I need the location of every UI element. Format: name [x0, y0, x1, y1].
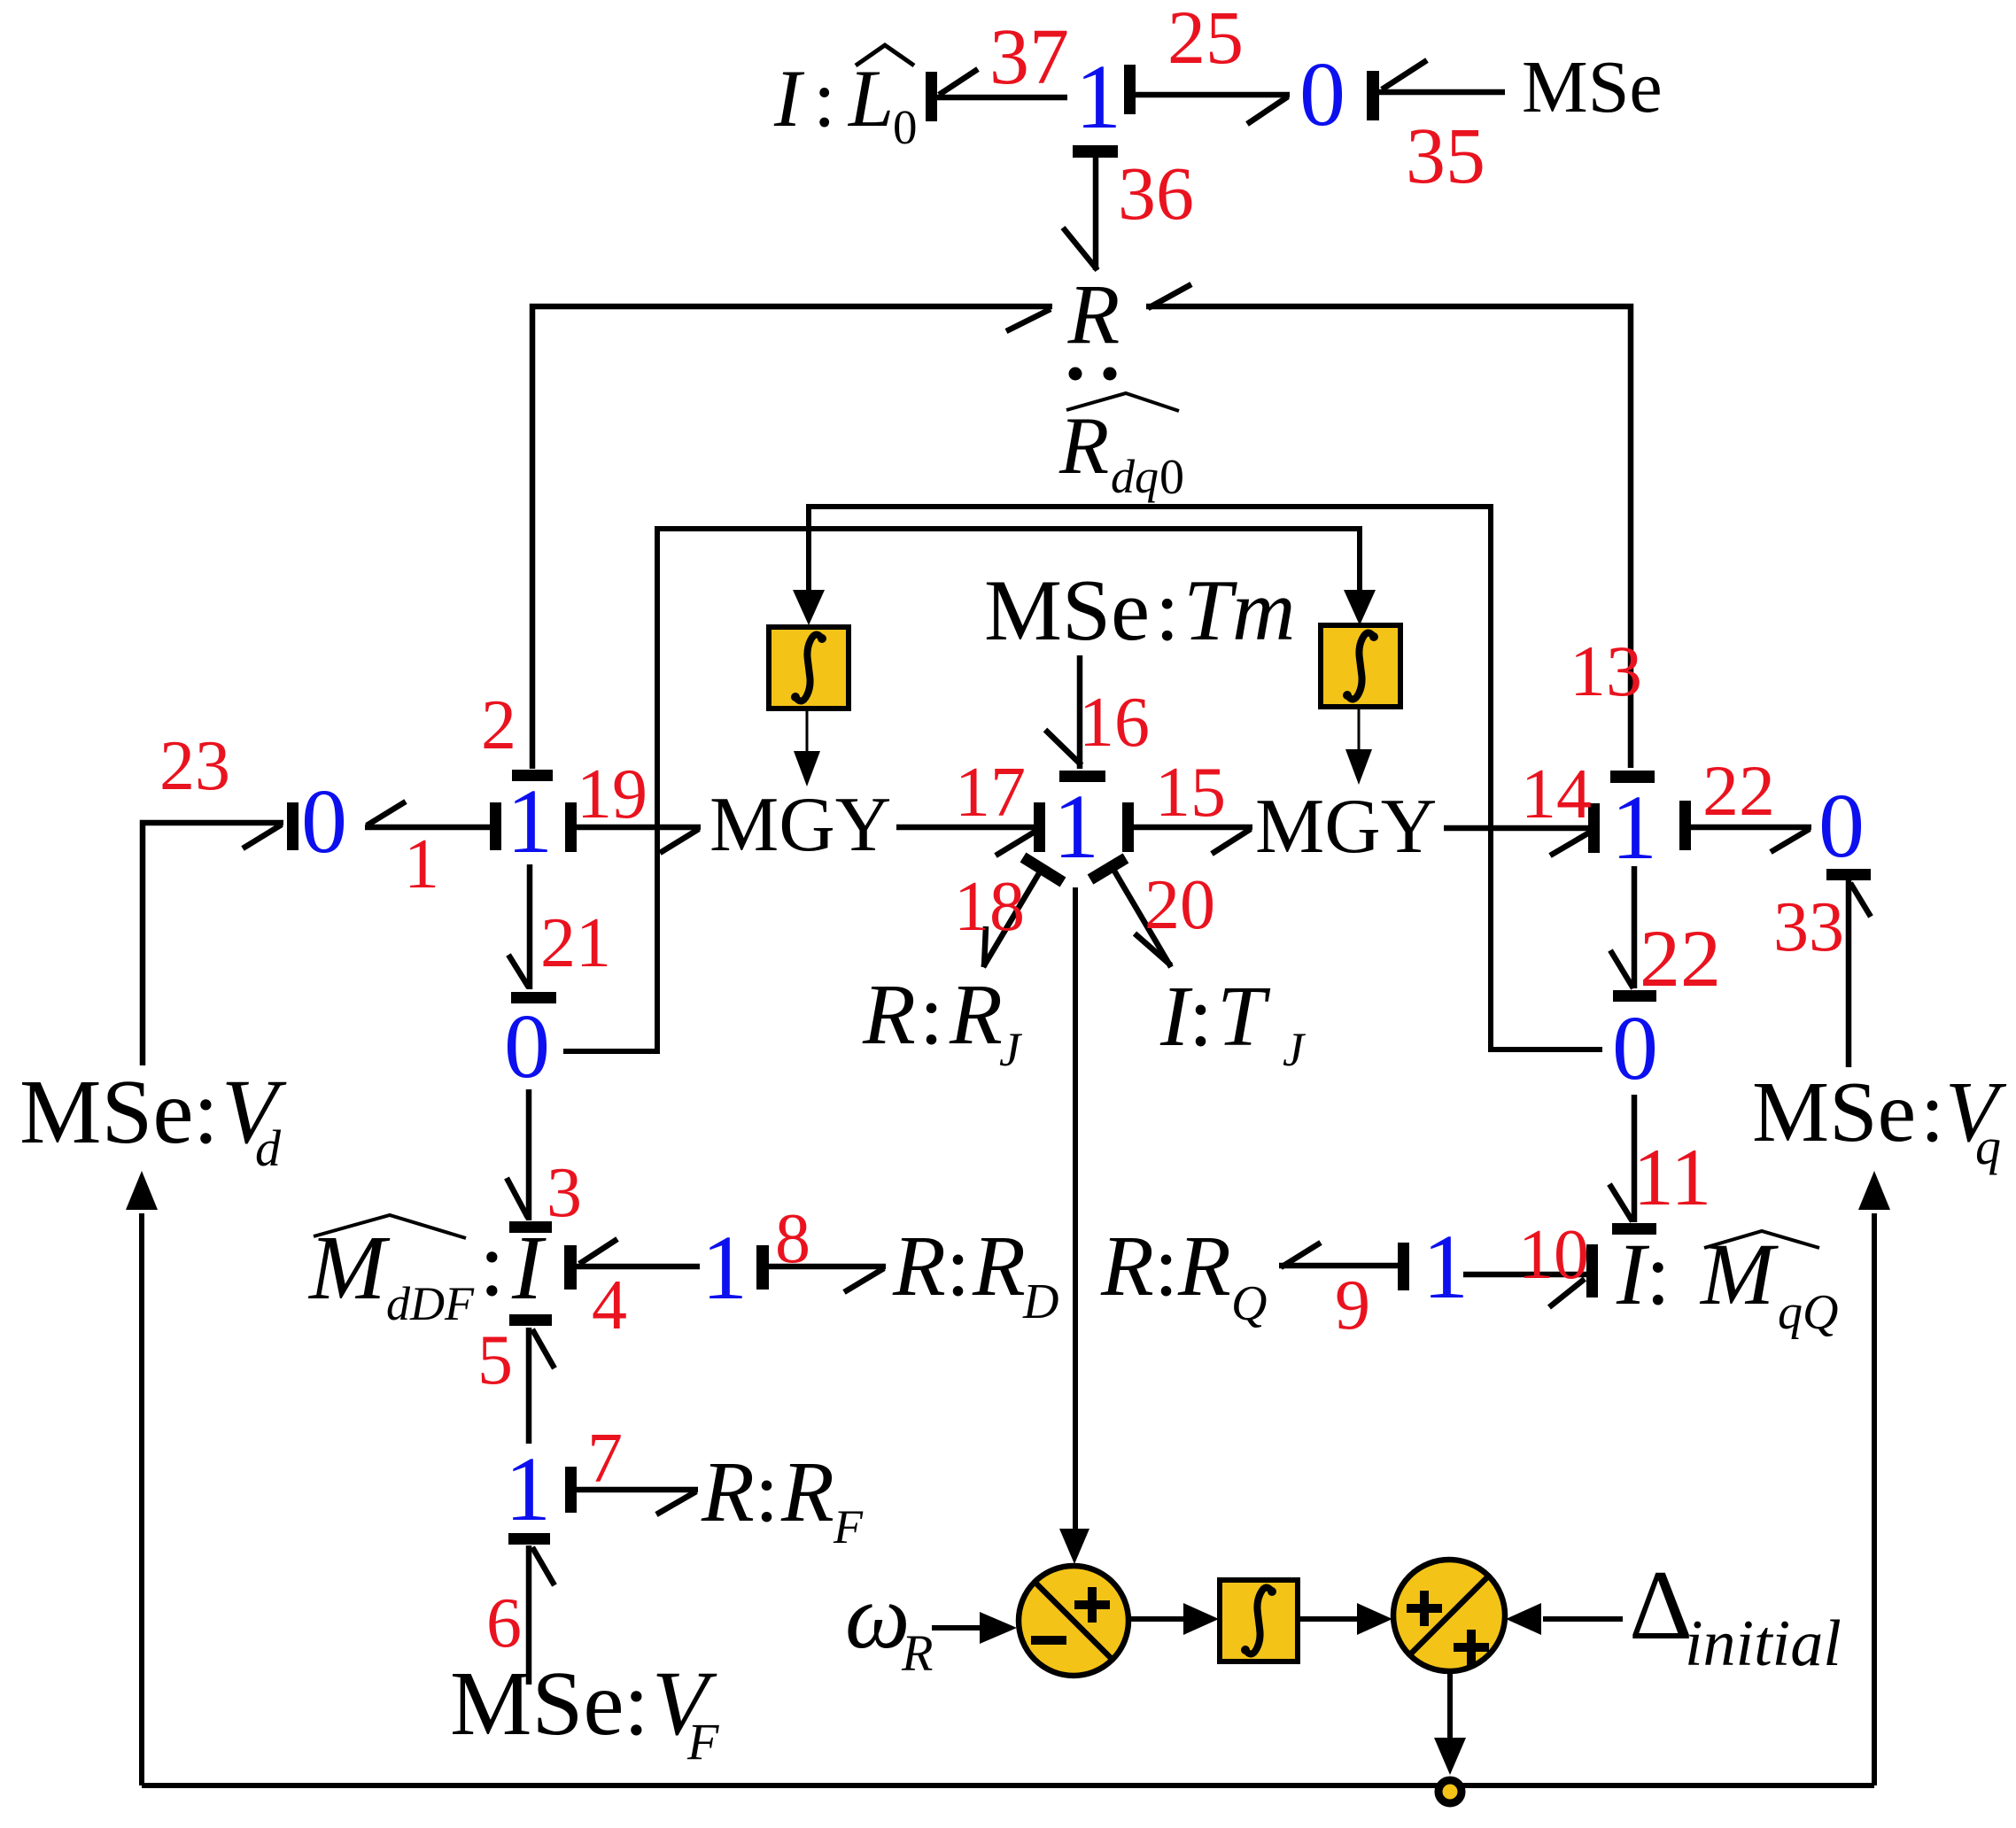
svg-text:20: 20: [1144, 866, 1215, 944]
left integrator output arrow to MGY: [806, 709, 809, 753]
svg-text:18: 18: [954, 868, 1025, 946]
inertia I:TJ: [1159, 969, 1307, 1076]
svg-text::: :: [1154, 1219, 1178, 1314]
svg-text:1: 1: [1611, 777, 1657, 879]
bond 10 (mid-right 1 to I:MqQ): [1463, 1272, 1586, 1278]
element I:L0 label: [773, 53, 918, 154]
bond 5 (lower 1 up to I:MdDF): [509, 1314, 552, 1326]
bond 23 (MSe:Vd up and to left 0): [143, 823, 283, 1065]
svg-text:q: q: [1975, 1118, 2001, 1175]
svg-text:R: R: [1058, 400, 1109, 491]
bond 33 (MSe:Vq up to far right 0): [1826, 869, 1871, 880]
svg-text:7: 7: [587, 1420, 623, 1498]
svg-text:R: R: [701, 1445, 755, 1540]
svg-text:1: 1: [1075, 46, 1121, 148]
source MSe:Vq: [1752, 1065, 2007, 1175]
bond 22 (right 1 to far right 0): [1679, 801, 1691, 850]
hat over L0: [856, 45, 914, 66]
svg-text:13: 13: [1570, 631, 1642, 711]
svg-text::: :: [1920, 1065, 1944, 1160]
svg-text:d: d: [255, 1119, 282, 1177]
svg-text:15: 15: [1155, 754, 1226, 832]
svg-text::: :: [1189, 969, 1213, 1065]
svg-text::: :: [919, 967, 943, 1063]
bond 6 (MSe:VF up to lower 1): [508, 1533, 550, 1545]
resistor R:RD: [892, 1219, 1058, 1329]
svg-text::: :: [624, 1653, 649, 1754]
svg-text:R: R: [780, 1445, 834, 1540]
svg-text:0: 0: [1159, 450, 1184, 505]
bond 20 (center 1 to I:TJ): [1109, 862, 1171, 967]
svg-text:R: R: [949, 967, 1003, 1063]
bond 4 (mid-left 1 to I:MdDF): [564, 1245, 577, 1290]
svg-text:dq: dq: [1111, 450, 1159, 503]
svg-text:T: T: [1217, 969, 1271, 1065]
svg-text:6: 6: [486, 1584, 522, 1662]
svg-text:Q: Q: [1231, 1276, 1267, 1331]
bond 7 (lower 1 to R:RF): [565, 1467, 577, 1513]
svg-text:1: 1: [1423, 1216, 1469, 1318]
svg-text:R: R: [862, 967, 916, 1063]
Delta initial label: [1629, 1551, 1842, 1680]
source MSe:Vd: [19, 1061, 287, 1177]
svg-text:qQ: qQ: [1778, 1285, 1838, 1340]
svg-text:10: 10: [1518, 1216, 1589, 1294]
resistor R:RF: [701, 1445, 864, 1553]
svg-text:MSe: MSe: [1522, 46, 1663, 128]
svg-text:dDF: dDF: [386, 1277, 475, 1330]
svg-text:22: 22: [1702, 750, 1775, 831]
svg-text::: :: [946, 1219, 970, 1314]
svg-text:M: M: [307, 1217, 391, 1319]
wire center 1 down to summer 1: [1073, 887, 1078, 1530]
svg-text:19: 19: [577, 755, 647, 833]
bond 25 (top 1 to top 0): [1124, 65, 1136, 114]
resistor node R (R_dq0): [1058, 267, 1184, 505]
svg-text:MGY: MGY: [1255, 784, 1437, 870]
svg-text:37: 37: [989, 13, 1069, 101]
svg-text:35: 35: [1406, 112, 1485, 200]
integrator box (right): [1321, 625, 1400, 707]
svg-text:F: F: [833, 1500, 864, 1553]
svg-text:0: 0: [1818, 775, 1865, 877]
svg-text:R: R: [1177, 1219, 1231, 1314]
omega_R label: [845, 1566, 933, 1682]
arrow integrator to summer 2: [1298, 1616, 1360, 1622]
bond 1 (left 1 to left 0): [365, 825, 490, 831]
svg-text:16: 16: [1079, 684, 1150, 762]
svg-text:initial: initial: [1685, 1607, 1842, 1680]
feedback wire to MSe:Vd (left): [139, 1213, 144, 1785]
svg-text::: :: [1646, 1225, 1671, 1323]
svg-text:J: J: [999, 1023, 1023, 1076]
svg-text:33: 33: [1773, 888, 1844, 966]
bond 16 (MSe:Tm down to center 1): [1077, 655, 1083, 769]
svg-text:1: 1: [1053, 776, 1099, 878]
svg-text:21: 21: [540, 904, 611, 982]
bond 8 (mid-left 1 to R:RD): [756, 1245, 769, 1290]
svg-text:MSe: MSe: [1752, 1065, 1916, 1160]
bond 22 (right 1 down to lower right 0): [1632, 866, 1638, 988]
svg-text::: :: [755, 1445, 779, 1540]
svg-text:14: 14: [1521, 755, 1592, 833]
svg-text:J: J: [1283, 1023, 1307, 1076]
svg-text:R: R: [1100, 1219, 1154, 1314]
svg-text:3: 3: [547, 1154, 582, 1232]
svg-text:F: F: [686, 1713, 719, 1770]
hat over MdDF: [314, 1215, 466, 1238]
svg-text:ω: ω: [845, 1566, 910, 1668]
wire B (left 0-junction up over to right integrator): [563, 529, 1360, 1051]
summer circle 1: [1019, 1566, 1128, 1676]
arrow summer1 to integrator: [1128, 1616, 1185, 1622]
svg-text::: :: [193, 1061, 219, 1163]
svg-text:36: 36: [1118, 151, 1194, 236]
svg-text::: :: [479, 1213, 505, 1315]
integrator box (bottom): [1220, 1580, 1298, 1661]
bond 36 (top 1 down to R): [1073, 145, 1118, 158]
svg-text:MSe: MSe: [984, 562, 1150, 659]
svg-text:0: 0: [301, 771, 347, 872]
bond 21 (left 1 down to left lower 0): [527, 864, 533, 989]
integrator box (left): [769, 627, 849, 709]
bottom feedback wire: [142, 1783, 1874, 1788]
svg-text:8: 8: [775, 1200, 810, 1278]
svg-text:Δ: Δ: [1629, 1551, 1693, 1661]
bond 15 (center 1 to right MGY): [1122, 802, 1134, 852]
inertia I:MdDF: [307, 1213, 547, 1330]
svg-text:0: 0: [504, 995, 550, 1097]
svg-text:1: 1: [702, 1217, 748, 1319]
svg-text:25: 25: [1167, 0, 1244, 80]
bond 18 (center 1 to R:RJ): [983, 864, 1044, 967]
right integrator output arrow to MGY: [1358, 707, 1361, 751]
bond 3 (lower left 0 down to I:MdDF): [526, 1089, 532, 1220]
svg-text:R: R: [1067, 267, 1120, 361]
svg-text:0: 0: [1299, 43, 1345, 145]
node (takeoff point): [1438, 1780, 1462, 1803]
bond 2 (left 1-junction up to R): [532, 306, 1052, 769]
svg-text:L: L: [847, 53, 894, 143]
svg-text:MGY: MGY: [709, 782, 891, 868]
svg-text:MSe: MSe: [450, 1653, 624, 1754]
svg-text:23: 23: [159, 727, 230, 805]
omega_R input arrow: [932, 1625, 981, 1630]
svg-text:R: R: [901, 1624, 933, 1682]
svg-text:17: 17: [955, 754, 1026, 832]
summer 2 output arrow down: [1447, 1671, 1453, 1739]
bond 35 (MSe to top 0): [1367, 71, 1379, 120]
svg-text:Tm: Tm: [1183, 562, 1296, 659]
bond 14 (right MGY to right 1): [1444, 825, 1588, 832]
wire A (right 0-junction up over to left integrator): [809, 507, 1602, 1050]
svg-text:R: R: [892, 1219, 946, 1314]
svg-text:R: R: [972, 1219, 1026, 1314]
svg-text:22: 22: [1640, 913, 1721, 1003]
svg-text:11: 11: [1633, 1132, 1712, 1222]
resistor R:RJ: [862, 967, 1023, 1076]
hat over MqQ: [1704, 1231, 1819, 1248]
summer circle 2: [1393, 1560, 1505, 1671]
svg-text:4: 4: [592, 1266, 627, 1344]
bond 9 (mid-right 1 to R:RQ): [1279, 1263, 1398, 1269]
svg-text:1: 1: [505, 1438, 551, 1540]
svg-text:1: 1: [404, 825, 439, 903]
bond 13 (right 1-junction up to R): [1146, 306, 1631, 768]
svg-text::: :: [1155, 562, 1180, 659]
source MSe:VF: [450, 1653, 719, 1770]
Delta initial input arrow: [1543, 1616, 1623, 1622]
source MSe:Tm: [984, 562, 1296, 659]
bond 19 (left 1 to left MGY): [565, 802, 577, 852]
hat over Rdq0: [1066, 393, 1179, 411]
svg-text:MSe: MSe: [19, 1061, 193, 1163]
svg-text:5: 5: [477, 1321, 513, 1399]
svg-text:I: I: [773, 53, 805, 143]
feedback wire to MSe:Vq (right): [1872, 1213, 1877, 1785]
arrowhead into right integrator: [1344, 590, 1376, 625]
inertia I:MqQ: [1616, 1225, 1838, 1340]
bond 17 (left MGY to center 1): [896, 825, 1038, 831]
svg-text::: :: [813, 53, 836, 143]
svg-text:2: 2: [481, 686, 516, 764]
svg-text:I: I: [511, 1217, 547, 1319]
svg-text:0: 0: [893, 100, 918, 154]
svg-text:9: 9: [1335, 1266, 1370, 1344]
resistor R:RQ: [1100, 1219, 1267, 1331]
bond 37 (1-junction to I:L0): [926, 72, 937, 121]
svg-text:0: 0: [1612, 997, 1658, 1099]
svg-text:1: 1: [507, 771, 553, 872]
bond 11 (lower right 0 down to I:MqQ): [1632, 1095, 1638, 1222]
svg-text:D: D: [1022, 1274, 1058, 1329]
arrowhead into left integrator: [793, 590, 825, 625]
